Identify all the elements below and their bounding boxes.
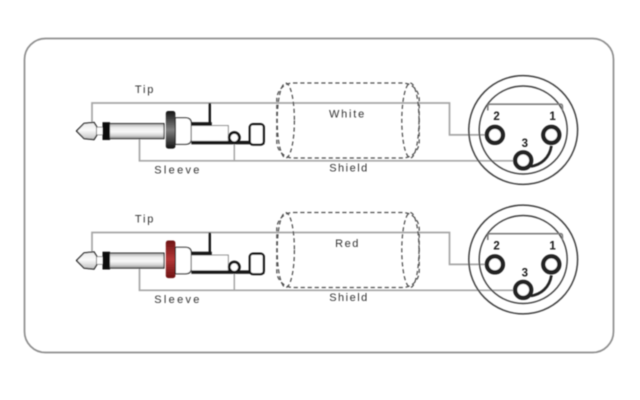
jack plug P2 sleeve shaft <box>110 253 165 268</box>
svg-text:Tip: Tip <box>135 84 155 96</box>
jack plug P2 bushing barrel <box>175 247 191 273</box>
jack plug P2 sleeve lug bar <box>191 270 264 273</box>
svg-text:1: 1 <box>549 240 556 252</box>
svg-text:3: 3 <box>522 267 528 279</box>
jack plug P2 tip lug <box>191 233 212 256</box>
jack plug P1 insulator ring <box>103 122 111 140</box>
svg-text:Tip: Tip <box>135 214 155 226</box>
jack plug P1 bushing barrel <box>175 118 191 145</box>
svg-text:Sleeve: Sleeve <box>154 294 201 306</box>
wire Sleeve net (jack sleeve to XLR pin 3, row 2) <box>140 268 515 290</box>
jack plug P1 cable clamp hook <box>250 124 264 144</box>
svg-text:Red: Red <box>335 238 360 250</box>
jack plug P1 sleeve lug bar <box>191 141 264 144</box>
XLR J2 pin 1 <box>543 256 559 272</box>
svg-text:Shield: Shield <box>329 162 369 174</box>
XLR J2 pin 3 <box>515 282 531 298</box>
jack plug P2 cable clamp hook <box>250 254 264 274</box>
jack plug P1 sleeve shaft <box>110 124 165 139</box>
jack plug P2 insulator ring <box>103 252 111 270</box>
jack plug P1 body <box>191 126 228 142</box>
wire sleeve lug lead <box>233 144 235 161</box>
XLR J1 jumper pin 3 to pin 1 <box>531 146 552 167</box>
cable shield (dashed cylinder, row 2) <box>277 213 419 288</box>
wire Tip net (jack tip to XLR pin 2) <box>92 103 486 135</box>
XLR J2 keyway bracket <box>488 234 563 240</box>
jack plug P1 tip <box>77 122 98 139</box>
svg-text:Shield: Shield <box>329 292 369 304</box>
wire sleeve lug lead (row 2) <box>233 274 235 291</box>
XLR connector J1 shell <box>469 76 578 185</box>
jack plug P2 tip neck <box>97 257 104 265</box>
XLR J1 keyway bracket <box>488 104 563 110</box>
XLR connector J2 shell <box>469 205 578 314</box>
svg-text:3: 3 <box>522 138 528 150</box>
jack plug P1 collar ring (black) <box>166 111 176 149</box>
svg-text:2: 2 <box>493 111 499 123</box>
jack plug P2 tip <box>77 252 98 269</box>
jack plug P2 body <box>191 255 228 271</box>
wire Sleeve net (jack sleeve to XLR pin 3) <box>140 139 515 161</box>
cable shield (dashed cylinder) <box>277 83 419 158</box>
jack plug P1 solder hole <box>229 133 239 143</box>
jack plug P1 tip lug <box>191 103 212 126</box>
jack plug P2 solder hole <box>229 262 239 272</box>
wire Tip net (jack tip to XLR pin 2, row 2) <box>92 233 486 265</box>
jack plug P1 tip neck <box>97 127 104 135</box>
svg-text:1: 1 <box>549 111 556 123</box>
svg-text:2: 2 <box>493 240 499 252</box>
XLR J1 pin 2 <box>487 127 503 143</box>
XLR J1 pin 1 <box>543 127 559 143</box>
svg-text:Sleeve: Sleeve <box>154 164 201 176</box>
XLR J2 pin 2 <box>487 256 503 272</box>
XLR J2 jumper pin 3 to pin 1 <box>531 275 552 296</box>
svg-text:White: White <box>329 108 366 120</box>
jack plug P2 collar ring (red) <box>166 241 176 279</box>
XLR J1 pin 3 <box>515 152 531 168</box>
